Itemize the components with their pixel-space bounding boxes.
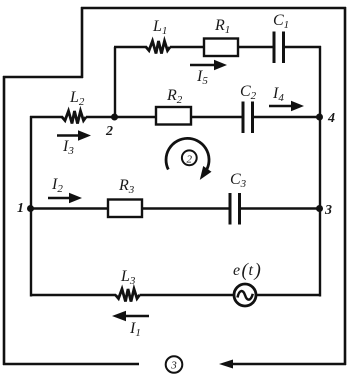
svg-text:I3: I3 [62, 138, 74, 157]
svg-text:3: 3 [170, 360, 177, 372]
resistor R2 [156, 87, 191, 125]
current arrow I3 [57, 130, 91, 157]
capacitor C2 [240, 83, 257, 133]
capacitor C3 [230, 171, 247, 225]
wire: outer bottom-right segment with loop-3 direction arrow [219, 360, 346, 369]
svg-text:1: 1 [17, 201, 24, 216]
wire: C2 to node 4 [253, 116, 322, 118]
svg-text:2: 2 [105, 124, 113, 139]
wire: L1 to R1 [170, 46, 204, 48]
svg-text:L2: L2 [69, 89, 85, 108]
svg-text:I4: I4 [272, 85, 284, 104]
svg-text:R3: R3 [118, 177, 135, 196]
wire: outer upper-left horizontal [3, 76, 83, 79]
svg-text:R2: R2 [166, 87, 183, 106]
wire: outer top-left vertical [81, 7, 84, 78]
svg-text:L3: L3 [120, 268, 136, 287]
wire: R2 to C2 [191, 116, 243, 118]
current arrow I4 [269, 85, 304, 111]
source e(t) [233, 260, 261, 306]
wire: outer bottom-left segment [3, 363, 139, 365]
svg-text:C3: C3 [230, 171, 247, 190]
svg-text:L1: L1 [152, 18, 167, 37]
svg-text:I5: I5 [196, 68, 208, 87]
inductor L1 [146, 18, 170, 54]
wire: outer left vertical [3, 76, 6, 365]
wire: node 1 to R3 [30, 207, 108, 209]
resistor R3 [108, 177, 142, 217]
node 4 [316, 111, 335, 126]
wire: L2 to node 2 to R2 [86, 116, 156, 118]
svg-text:t: t [249, 262, 254, 279]
svg-text:C2: C2 [240, 83, 257, 102]
svg-text:3: 3 [324, 203, 332, 218]
current arrow I5 [190, 60, 227, 87]
wire: outer right vertical [344, 7, 347, 365]
svg-text:I1: I1 [129, 320, 141, 339]
svg-text:2: 2 [187, 153, 193, 165]
inductor L2 [62, 89, 86, 124]
wire: right inner vertical (C1 to node 4, node 3, bottom branch) [319, 46, 321, 297]
svg-text:4: 4 [327, 111, 335, 126]
capacitor C1 [273, 12, 289, 63]
wire: source to right inner vertical [256, 294, 321, 296]
current arrow I1 (points left) [112, 311, 149, 339]
current arrow I2 [48, 176, 82, 203]
svg-text:I2: I2 [51, 176, 63, 195]
loop label 2 (circled 2 with clockwise arc arrow) [166, 138, 211, 180]
svg-text:C1: C1 [273, 12, 289, 31]
wire: top branch drop to node 2 [114, 47, 147, 117]
svg-text:R1: R1 [214, 17, 230, 36]
wire: C3 to node 3 [240, 207, 322, 209]
wire: left inner vertical (branch 2 to node 1 to bottom branch) [30, 116, 32, 297]
loop label 3 (circled 3) [166, 356, 183, 373]
wire: L3 to source e(t) [140, 294, 235, 296]
node 2 [105, 114, 118, 140]
node 3 [316, 203, 332, 218]
wire: R1 to C1 [238, 46, 274, 48]
wire: second branch left horizontal [30, 116, 63, 118]
inductor L3 [116, 268, 140, 302]
resistor R1 [204, 17, 238, 56]
wire: outer top [81, 7, 346, 10]
wire: R3 to C3 [142, 207, 230, 209]
wire: C1 to right inner vertical [284, 46, 322, 48]
svg-text:e: e [233, 262, 240, 279]
wire: bottom branch left [30, 294, 116, 296]
node 1 [17, 201, 34, 216]
svg-text:): ) [254, 260, 261, 281]
